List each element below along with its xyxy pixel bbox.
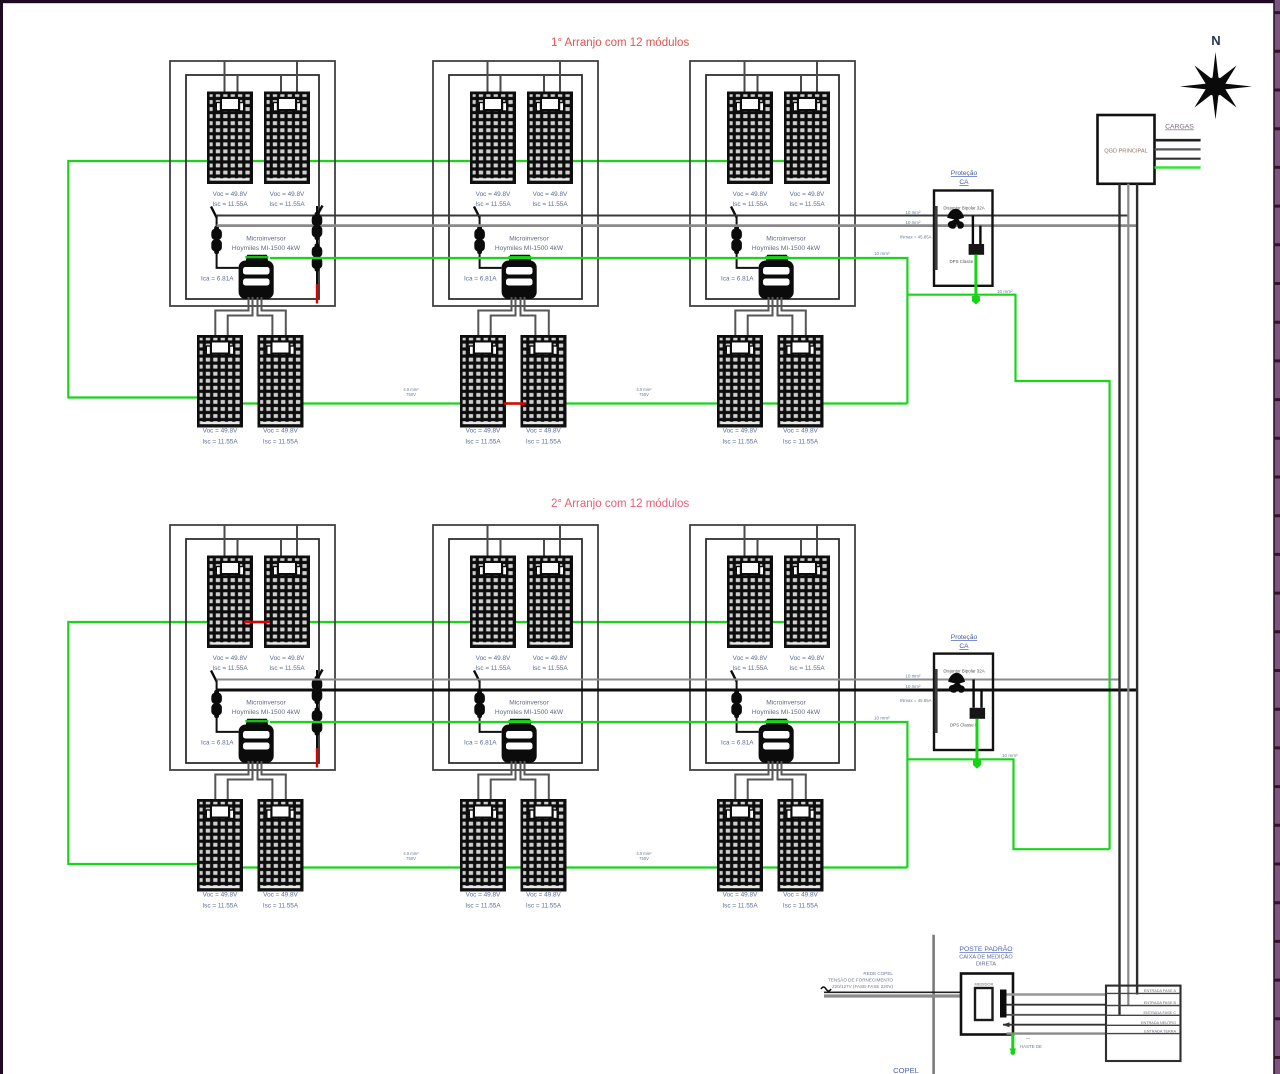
green branch to kwh area array2: [907, 759, 1109, 849]
svg-text:10 mm²: 10 mm²: [874, 251, 890, 256]
ac green line array1 to protection: [270, 258, 907, 404]
svg-text:—: —: [1026, 1036, 1031, 1041]
svg-text:ENTRADA FASE A: ENTRADA FASE A: [1144, 989, 1177, 993]
utility boundary line: [932, 935, 935, 1074]
svg-text:10 mm²: 10 mm²: [874, 716, 890, 721]
svg-text:10 mm²: 10 mm²: [906, 684, 921, 689]
red segment top green array2: [244, 621, 270, 623]
red segment bottom green array1: [504, 402, 527, 404]
dps block: [969, 244, 985, 255]
green branch to kwh area array1: [907, 295, 1109, 850]
ac bus line A array1: [217, 214, 1129, 216]
svg-text:COPEL: COPEL: [893, 1066, 919, 1074]
ac bus line B array1: [217, 224, 1138, 227]
breaker: [947, 209, 964, 229]
source squiggle: [821, 987, 831, 991]
wire feeder neutral qgd to meter panel: [1136, 184, 1138, 995]
svg-text:DPS Classe II: DPS Classe II: [950, 723, 977, 728]
ground marker: [972, 296, 980, 301]
svg-text:10 mm²: 10 mm²: [906, 674, 921, 679]
ac green line array2 to protection: [270, 722, 907, 868]
svg-text:750V: 750V: [406, 856, 416, 861]
right tap group1 array2: [312, 670, 323, 768]
svg-text:INmax = 45.85A: INmax = 45.85A: [900, 698, 932, 703]
green pv frame loop array1: top line, left drop, bottom line: [68, 161, 793, 398]
svg-text:REDE COPEL: REDE COPEL: [863, 971, 893, 976]
ac bus line B array2: [217, 689, 1138, 692]
load panel dividers: [1106, 993, 1181, 1033]
svg-text:INmax = 45.85A: INmax = 45.85A: [900, 235, 932, 240]
group 2: [433, 61, 598, 446]
svg-text:N: N: [1211, 33, 1220, 48]
svg-text:Proteção: Proteção: [951, 634, 978, 641]
group 3: [690, 61, 855, 446]
svg-text:10 mm²: 10 mm²: [997, 289, 1013, 294]
svg-text:DIRETA: DIRETA: [976, 962, 996, 968]
protection box: [934, 191, 993, 286]
load panel box: [1106, 986, 1181, 1061]
svg-text:2° Arranjo com 12 módulos: 2° Arranjo com 12 módulos: [551, 498, 689, 510]
svg-text:QGD PRINCIPAL: QGD PRINCIPAL: [1104, 149, 1147, 155]
svg-text:ENTRADA FASE B: ENTRADA FASE B: [1144, 1001, 1177, 1005]
svg-text:750V: 750V: [406, 392, 416, 397]
wire feeder phase B qgd to meter panel: [1127, 184, 1129, 1006]
group 1 array2: [170, 525, 335, 910]
svg-text:CA: CA: [959, 643, 969, 650]
wire feeder phase A qgd to meter panel: [1118, 184, 1120, 1015]
svg-text:1° Arranjo com 12 módulos: 1° Arranjo com 12 módulos: [551, 37, 689, 49]
cargas feeder lines: [1155, 139, 1201, 142]
meter terminal block: [1000, 990, 1007, 1018]
meter box: [961, 974, 1013, 1035]
svg-text:10 mm²: 10 mm²: [906, 220, 921, 225]
svg-text:MEDIDOR: MEDIDOR: [975, 982, 994, 987]
svg-text:ENTRADA NEUTRO: ENTRADA NEUTRO: [1141, 1021, 1176, 1025]
svg-text:TENSÃO DE FORNECIMENTO: TENSÃO DE FORNECIMENTO: [828, 977, 893, 983]
green bottom run array1: [197, 402, 907, 404]
svg-text:750V: 750V: [639, 856, 649, 861]
group 3 array2: [690, 525, 855, 910]
meter wires to load panel: [1007, 993, 1107, 996]
right tap group1 array1: [312, 206, 323, 304]
svg-text:10 mm²: 10 mm²: [906, 210, 921, 215]
top border: [0, 0, 1280, 3]
green pv frame loop array2: [68, 622, 793, 864]
svg-text:Disjuntor Bipolar 32A: Disjuntor Bipolar 32A: [943, 206, 984, 211]
ac bus line A array2: [217, 679, 1120, 681]
service drop double line: [824, 991, 961, 993]
svg-text:ENTRADA FASE C: ENTRADA FASE C: [1144, 1011, 1177, 1015]
svg-text:220/127V (FASE-FASE 220V): 220/127V (FASE-FASE 220V): [832, 984, 893, 989]
svg-text:CA: CA: [959, 179, 969, 186]
left border: [0, 0, 3, 1074]
svg-text:POSTE PADRÃO: POSTE PADRÃO: [959, 944, 1012, 953]
svg-text:Disjuntor Bipolar 32A: Disjuntor Bipolar 32A: [943, 669, 984, 674]
svg-text:HASTE DE: HASTE DE: [1020, 1044, 1042, 1049]
dps wires: [973, 216, 981, 245]
svg-text:ENTRADA TERRA: ENTRADA TERRA: [1144, 1029, 1176, 1033]
group 2 array2: [433, 525, 598, 910]
right margin strip: [1275, 0, 1280, 1074]
svg-text:CARGAS: CARGAS: [1165, 124, 1194, 131]
group 1: [170, 61, 335, 446]
meter device: [975, 988, 993, 1020]
svg-text:Proteção: Proteção: [951, 170, 978, 177]
ground wire green: [974, 255, 977, 298]
svg-text:DPS Classe II: DPS Classe II: [950, 259, 977, 264]
ruler ticks on right strip: [1275, 13, 1280, 1058]
meter ground wire: [1011, 1033, 1014, 1049]
green bottom run array2: [197, 866, 907, 868]
svg-text:CAIXA DE MEDIÇÃO: CAIXA DE MEDIÇÃO: [959, 954, 1013, 961]
svg-text:750V: 750V: [639, 392, 649, 397]
svg-text:10 mm²: 10 mm²: [1002, 753, 1018, 758]
qgd box: [1098, 115, 1155, 184]
